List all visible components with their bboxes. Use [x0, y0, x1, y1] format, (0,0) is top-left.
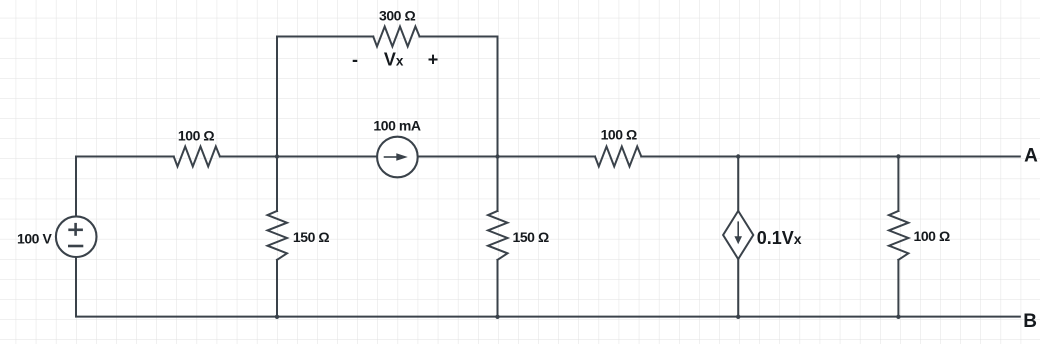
- junction node1 bottom: [275, 315, 279, 319]
- resistor R3 150ohm vertical at node1: [268, 211, 288, 260]
- resistor R5 150ohm vertical at node2: [488, 211, 508, 260]
- svg-text:100 Ω: 100 Ω: [914, 228, 950, 244]
- svg-text:100 V: 100 V: [17, 230, 52, 246]
- resistor R1 100ohm horizontal: [174, 147, 220, 167]
- svg-text:-: -: [352, 50, 358, 70]
- wire: main between R1 and current source: [220, 156, 377, 158]
- resistor R4 100ohm mid horizontal: [595, 147, 641, 167]
- wire: top loop left riser and top-left segment: [277, 37, 373, 157]
- current source arrow: [384, 153, 408, 160]
- svg-text:A: A: [1024, 145, 1038, 166]
- wire: node2 150ohm to bottom: [497, 260, 499, 317]
- dependent source arrow: [734, 221, 742, 244]
- wire: dep source top stub: [737, 157, 739, 211]
- junction dep source main: [736, 154, 740, 158]
- svg-text:100 Ω: 100 Ω: [601, 127, 637, 143]
- current source I1 circle: [377, 137, 418, 178]
- wire: main between current source and mid resistor: [418, 156, 595, 158]
- wire: top loop right segment and right riser: [420, 37, 498, 157]
- dependent source diamond: [723, 211, 753, 259]
- junction right branch bottom: [896, 315, 900, 319]
- wire: bottom rail B: [76, 217, 1020, 317]
- junction right branch main: [896, 154, 900, 158]
- voltage source minus sign: [68, 245, 83, 248]
- svg-text:100 Ω: 100 Ω: [178, 127, 214, 143]
- junction node1 main: [275, 154, 279, 158]
- svg-text:B: B: [1023, 311, 1037, 332]
- svg-text:100 mA: 100 mA: [373, 117, 420, 133]
- junction dep source bottom: [736, 315, 740, 319]
- wire: node1 drop to 150ohm: [276, 157, 278, 212]
- resistor R6 100ohm vertical right: [889, 211, 909, 260]
- svg-text:+: +: [428, 50, 439, 70]
- wire: right branch top stub: [897, 157, 899, 212]
- wire: node2 drop to 150ohm: [497, 157, 499, 212]
- svg-text:150 Ω: 150 Ω: [513, 229, 549, 245]
- resistor R2 300ohm top: [373, 27, 419, 47]
- wire: main right to terminal A: [641, 156, 1020, 158]
- junction node2 main: [495, 154, 499, 158]
- svg-text:0.1Vx: 0.1Vx: [757, 228, 802, 248]
- wire: left column top (vsrc to main): [76, 157, 174, 217]
- voltage source plus sign: [68, 223, 83, 246]
- wire: right branch bottom stub: [897, 260, 899, 317]
- svg-text:150 Ω: 150 Ω: [293, 229, 329, 245]
- wire: dep source bottom stub: [737, 259, 739, 317]
- wire: node1 150ohm to bottom: [276, 260, 278, 317]
- svg-text:300 Ω: 300 Ω: [379, 8, 415, 24]
- voltage source V1 circle: [56, 216, 97, 257]
- junction node2 bottom: [495, 315, 499, 319]
